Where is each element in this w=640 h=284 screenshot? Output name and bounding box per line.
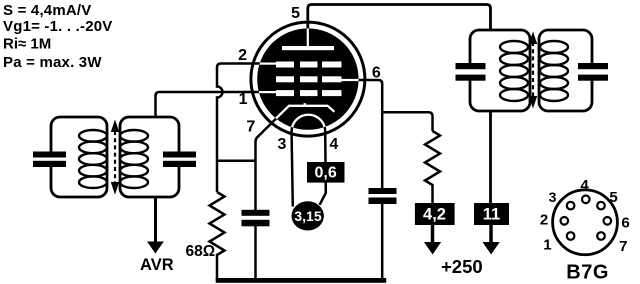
- svg-text:3: 3: [549, 189, 557, 205]
- svg-text:+250: +250: [441, 256, 483, 277]
- grid g2 dashed row: [276, 76, 363, 82]
- coupling adjust arrow T1: [111, 120, 119, 195]
- grid g3 dashed row: [252, 62, 342, 68]
- cathode chevron: [256, 103, 335, 138]
- wire grid pin 2 left then down to R1 with hop over pin-1 wire: [217, 64, 262, 193]
- socket pin hole 7: [597, 232, 605, 240]
- wire junction branch between grid resistor and cathode line: [217, 160, 256, 163]
- left IF transformer T1 primary tank box: [51, 117, 107, 197]
- grid g1 dashed row: [252, 90, 342, 96]
- right IF transformer T2 primary tank box: [470, 30, 530, 111]
- coil T2 secondary: [540, 41, 568, 101]
- svg-text:2: 2: [238, 47, 247, 64]
- B7G socket base outline: [553, 190, 618, 255]
- value box 11: [474, 203, 509, 225]
- svg-text:68Ω: 68Ω: [186, 243, 216, 260]
- socket pin hole 3: [567, 202, 575, 210]
- resistor R1 68 ohm: [210, 192, 225, 280]
- svg-text:7: 7: [246, 119, 255, 136]
- svg-text:4: 4: [580, 177, 589, 194]
- capacitor T1 primary tuning: [33, 152, 66, 168]
- svg-text:6: 6: [621, 215, 629, 232]
- arrow to +250 supply left: [424, 225, 441, 255]
- socket pin hole 1: [567, 232, 575, 240]
- svg-text:7: 7: [619, 238, 627, 255]
- socket pin hole 6: [604, 217, 612, 225]
- wire branch to screen dropping resistor R2: [382, 112, 432, 131]
- svg-text:4: 4: [329, 136, 338, 153]
- svg-text:3,15: 3,15: [294, 208, 321, 224]
- resistor R2 screen dropper: [425, 131, 440, 203]
- left IF transformer T1 secondary tank box: [120, 117, 179, 197]
- capacitor T1 secondary tuning: [163, 152, 196, 168]
- wire C1 bottom to ground rail: [254, 226, 257, 280]
- right IF transformer T2 secondary tank box: [539, 30, 592, 111]
- wire and arrow to AVR net: [147, 197, 164, 254]
- svg-text:AVR: AVR: [140, 256, 174, 274]
- socket pin hole 2: [561, 217, 569, 225]
- svg-text:Vg1= -1. . .-20V: Vg1= -1. . .-20V: [3, 18, 113, 35]
- coil T2 primary: [500, 41, 528, 101]
- coil T1 secondary: [120, 130, 148, 188]
- anode plate bar: [282, 46, 334, 50]
- svg-text:Pa = max. 3W: Pa = max. 3W: [3, 54, 102, 71]
- svg-text:S = 4,4mA/V: S = 4,4mA/V: [3, 2, 92, 19]
- wire right transformer primary bottom to 11 box: [489, 111, 492, 203]
- wire anode pin 5 up and along top rail to right IF transformer primary: [308, 5, 491, 32]
- capacitor C1 cathode bypass: [242, 210, 270, 227]
- wire screen pin 6 right and down: [352, 80, 382, 189]
- svg-text:3: 3: [278, 136, 287, 153]
- value box 0,6 heater current: [307, 162, 345, 183]
- svg-text:1: 1: [239, 91, 248, 108]
- svg-text:4,2: 4,2: [423, 205, 446, 223]
- svg-text:Ri≈ 1M: Ri≈ 1M: [3, 36, 51, 53]
- svg-text:5: 5: [609, 189, 617, 206]
- coupling adjust arrow T2: [529, 32, 537, 109]
- wire left transformer secondary top to tube pin 1: [156, 92, 263, 118]
- ground rail: [216, 278, 387, 283]
- heater wires pins 3 and 4 with arch: [292, 115, 326, 207]
- socket pin hole 4: [582, 196, 590, 204]
- coil T1 primary: [79, 130, 107, 188]
- svg-text:1: 1: [543, 237, 551, 254]
- heater arch white inside disc: [292, 115, 326, 135]
- svg-text:2: 2: [540, 212, 548, 229]
- svg-text:6: 6: [372, 64, 381, 81]
- svg-text:11: 11: [483, 205, 500, 223]
- svg-text:B7G: B7G: [566, 261, 609, 283]
- capacitor C2 screen decoupling: [369, 188, 397, 204]
- svg-text:5: 5: [291, 5, 300, 22]
- socket pin hole 5: [597, 202, 605, 210]
- wire C2 bottom to ground rail: [381, 204, 384, 280]
- anode lead white inside disc: [307, 24, 309, 47]
- value box 4,2: [415, 203, 455, 225]
- capacitor T2 secondary tuning: [578, 63, 608, 81]
- heater voltage circle 3,15: [292, 201, 324, 230]
- capacitor T2 primary tuning: [456, 63, 486, 81]
- tube envelope: [251, 22, 365, 136]
- wire cathode pin 7 lead diagonal and down to C1: [256, 106, 290, 213]
- svg-text:0,6: 0,6: [314, 164, 336, 181]
- tube U1 electrode system black disc: [257, 28, 358, 129]
- arrow to +250 supply right: [483, 225, 500, 255]
